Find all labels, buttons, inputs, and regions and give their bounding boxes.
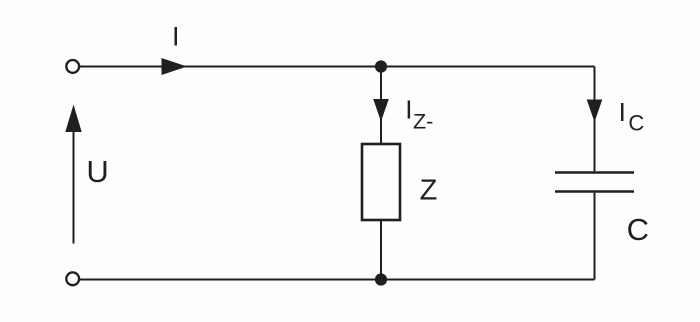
svg-text:C: C xyxy=(627,212,649,247)
current arrow IZ xyxy=(373,99,389,122)
wire (bottom horizontal bus) xyxy=(80,279,595,281)
current arrow I xyxy=(162,58,188,75)
svg-text:Z: Z xyxy=(420,175,438,207)
node (top junction) xyxy=(375,60,387,72)
voltage arrow U xyxy=(65,105,81,244)
svg-text:U: U xyxy=(86,154,108,189)
label IZ- xyxy=(405,94,433,133)
svg-text:C: C xyxy=(628,111,644,136)
svg-text:I: I xyxy=(619,97,626,127)
svg-text:Z-: Z- xyxy=(413,109,433,133)
svg-text:I: I xyxy=(405,94,412,124)
wire (top horizontal bus) xyxy=(80,66,595,68)
node (bottom junction) xyxy=(375,273,387,285)
wire (right branch, capacitor to bottom corner) xyxy=(594,193,596,280)
current arrow IC xyxy=(587,100,603,123)
terminal (input, bottom-left) xyxy=(66,272,79,285)
impedance Z xyxy=(362,144,400,220)
wire (middle branch, Z to bottom) xyxy=(380,220,382,280)
wire (middle branch, junction to Z) xyxy=(380,67,382,145)
capacitor C (plates) xyxy=(555,173,634,192)
svg-text:I: I xyxy=(172,22,180,52)
terminal (input, top-left) xyxy=(66,60,79,73)
wire (right branch, top corner to capacitor) xyxy=(594,67,596,172)
label IC xyxy=(619,97,645,136)
